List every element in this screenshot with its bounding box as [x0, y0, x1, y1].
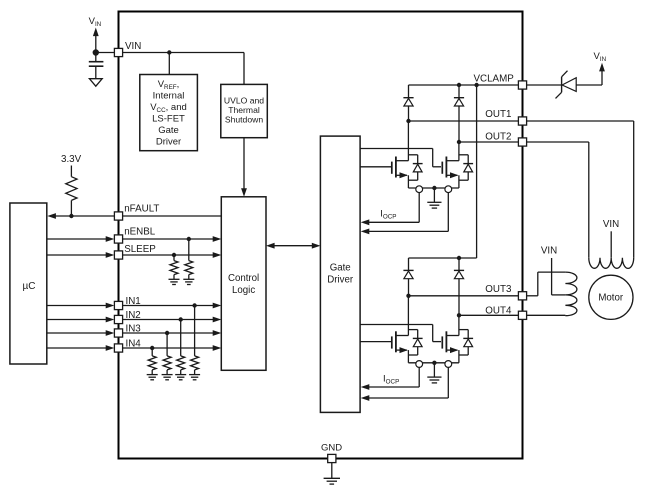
ground top bridge — [433, 188, 435, 202]
resistor R6 IN3 pull-down — [166, 333, 168, 356]
block U2 UVLO and Thermal Shutdown — [221, 84, 267, 137]
junction D4-OUT4 — [457, 313, 461, 317]
wire VCLAMP feed to lower bridge — [476, 85, 478, 258]
junction D2-OUT2 — [457, 140, 461, 144]
wire gate feed Q4 — [360, 324, 433, 326]
junction node VIN — [93, 49, 99, 55]
svg-text:IOCP: IOCP — [383, 373, 399, 385]
junction D3-OUT3 — [406, 294, 410, 298]
junction feed-D4 — [457, 256, 461, 260]
svg-text:VIN: VIN — [125, 41, 141, 52]
diode D4 clamp OUT4 — [458, 258, 460, 270]
svg-text:VCLAMP: VCLAMP — [474, 73, 515, 84]
pin nFAULT — [114, 212, 122, 220]
svg-text:Gate: Gate — [330, 262, 351, 273]
svg-text:IN1: IN1 — [126, 296, 141, 307]
block uC microcontroller — [10, 203, 47, 364]
wire IOCP sense 1 — [418, 192, 420, 222]
svg-text:VIN: VIN — [603, 219, 619, 230]
ground R6 — [162, 374, 173, 376]
wire OUT3 external — [527, 295, 538, 297]
resistor R2 SLEEP pull-down — [173, 255, 175, 261]
resistor R1 pull-up — [70, 166, 72, 177]
transistor Q2 — [441, 162, 443, 174]
junction on IN2 — [179, 317, 183, 321]
block U4 Gate Driver — [320, 136, 360, 412]
zener diode D5 — [561, 77, 563, 93]
svg-text:Driver: Driver — [327, 275, 354, 286]
svg-text:nENBL: nENBL — [124, 227, 156, 238]
transistor Q1 — [391, 162, 393, 174]
wire VIN pin to UVLO — [123, 52, 244, 54]
svg-text:Control: Control — [228, 273, 259, 284]
pin VCLAMP — [518, 81, 526, 89]
wire OUT4 external — [527, 314, 565, 316]
pin IN3 — [114, 329, 122, 337]
junction VCLAMP-feed — [474, 83, 478, 87]
svg-text:SLEEP: SLEEP — [124, 244, 156, 255]
inductor L1 stepper winding A — [589, 258, 634, 269]
svg-text:Shutdown: Shutdown — [225, 115, 263, 125]
IC boundary box — [119, 12, 523, 459]
svg-text:µC: µC — [23, 281, 36, 292]
svg-text:LS-FET: LS-FET — [152, 113, 185, 124]
pin nENBL — [114, 235, 122, 243]
transistor Q4 — [441, 336, 443, 348]
svg-text:OUT1: OUT1 — [485, 109, 511, 120]
ground GND pin — [331, 463, 333, 478]
net IN3 wire — [47, 332, 107, 334]
resistor R7 IN4 pull-down — [151, 348, 153, 356]
ground R7 — [147, 374, 158, 376]
svg-text:VCC, and: VCC, and — [150, 102, 187, 114]
resistor R3 nENBL pull-down — [188, 239, 190, 261]
svg-text:nFAULT: nFAULT — [124, 204, 159, 215]
motor M1 — [589, 275, 633, 319]
wire IOCP sense 4 — [447, 367, 449, 398]
junction to VREF block — [167, 50, 171, 54]
ground (open triangle) — [89, 79, 102, 87]
svg-text:IN2: IN2 — [126, 310, 141, 321]
pin OUT3 — [518, 292, 526, 300]
svg-text:IOCP: IOCP — [380, 209, 396, 221]
svg-text:3.3V: 3.3V — [61, 154, 82, 165]
wire source rail lower bridge — [408, 362, 459, 364]
svg-text:Logic: Logic — [232, 285, 255, 296]
wire UVLO to Control Logic — [243, 138, 245, 190]
svg-text:IN3: IN3 — [126, 323, 142, 334]
resistor R4 IN1 pull-down — [194, 306, 196, 356]
net OUT3 wire — [409, 295, 519, 297]
wire IOCP sense 3 — [418, 367, 420, 387]
sense element Q1 (circle) — [416, 186, 423, 193]
junction D1-OUT1 — [406, 119, 410, 123]
ground R5 — [175, 374, 186, 376]
wire gate feed Q3 — [360, 341, 391, 343]
net SLEEP wire — [47, 254, 107, 256]
wire gate feed Q2 — [360, 148, 433, 150]
wire gate feed Q1 — [360, 166, 391, 168]
wire VCLAMP to zener — [527, 84, 562, 86]
power flag VIN (right) — [599, 63, 605, 72]
block U1 VREF/Internal VCC/LS-FET Gate Driver — [140, 75, 198, 151]
junction VCLAMP-D2 — [457, 83, 461, 87]
resistor R5 IN2 pull-down — [180, 320, 182, 356]
svg-text:OUT4: OUT4 — [485, 305, 512, 316]
diode D2 clamp OUT2 — [458, 85, 460, 98]
svg-text:Internal: Internal — [153, 90, 185, 101]
svg-text:UVLO and: UVLO and — [224, 95, 264, 105]
net OUT1 wire — [409, 120, 519, 122]
svg-text:VIN: VIN — [594, 51, 607, 63]
junction on IN1 — [192, 303, 196, 307]
net IN2 wire — [47, 319, 107, 321]
svg-text:Thermal: Thermal — [228, 105, 260, 115]
net OUT2 wire — [459, 141, 518, 143]
junction rail-ground top — [432, 186, 436, 190]
wire IOCP sense 2 — [447, 192, 449, 231]
pin GND — [328, 454, 336, 462]
wire source rail top bridge — [408, 187, 459, 189]
pin OUT4 — [518, 311, 526, 319]
svg-text:VIN: VIN — [541, 246, 557, 257]
wire VIN to pin — [96, 52, 115, 54]
pin OUT1 — [518, 117, 526, 125]
junction on IN3 — [165, 331, 169, 335]
svg-text:OUT2: OUT2 — [485, 132, 511, 143]
net IN1 wire — [47, 305, 107, 307]
net nFAULT wire — [54, 215, 221, 217]
svg-text:IN4: IN4 — [126, 338, 142, 349]
net nENBL wire — [47, 238, 107, 240]
capacitor C1 — [95, 53, 97, 62]
svg-text:OUT3: OUT3 — [485, 284, 512, 295]
inductor L2 stepper winding B — [565, 272, 577, 316]
pin OUT2 — [518, 138, 526, 146]
ground R2 — [169, 278, 180, 280]
junction on IN4 — [150, 346, 154, 350]
diode D1 clamp OUT1 — [408, 85, 410, 98]
net VCLAMP wire — [409, 84, 519, 86]
sense element Q4 (circle) — [445, 361, 452, 368]
ground R4 — [189, 374, 200, 376]
junction rail-ground lower — [432, 361, 436, 365]
net OUT4 wire — [459, 314, 518, 316]
pin IN4 — [114, 344, 122, 352]
pin SLEEP — [114, 251, 122, 259]
wire to VREF block — [168, 53, 170, 75]
svg-text:Motor: Motor — [598, 292, 624, 303]
wire OUT1 external — [527, 120, 634, 122]
sense element Q2 (circle) — [445, 186, 452, 193]
wire zener to VIN flag — [576, 84, 602, 86]
wire OUT2 external — [527, 141, 589, 143]
pin IN2 — [114, 315, 122, 323]
svg-text:GND: GND — [321, 442, 342, 453]
net IN4 wire — [47, 347, 107, 349]
ground lower bridge — [433, 363, 435, 377]
svg-text:Driver: Driver — [156, 136, 181, 147]
ground R3 — [183, 278, 194, 280]
svg-text:VIN: VIN — [89, 16, 102, 28]
junction on nFAULT — [69, 214, 73, 218]
transistor Q3 — [391, 336, 393, 348]
sense element Q3 (circle) — [416, 361, 423, 368]
pin VIN — [114, 48, 122, 56]
pin IN1 — [114, 301, 122, 309]
diode D3 clamp OUT3 — [408, 258, 410, 270]
bus wire Control Logic to Gate Driver — [273, 245, 314, 247]
svg-text:Gate: Gate — [158, 125, 179, 136]
junction on SLEEP — [172, 253, 176, 257]
junction on nENBL — [187, 237, 191, 241]
block U3 Control Logic — [221, 197, 266, 370]
